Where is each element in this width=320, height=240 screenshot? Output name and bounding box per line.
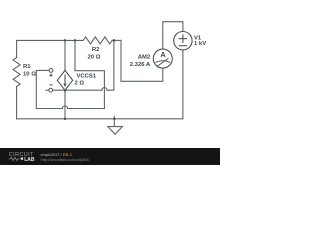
svg-text:1 kV: 1 kV — [194, 41, 206, 47]
svg-text:10 Ω: 10 Ω — [23, 72, 36, 78]
svg-text:2.326 A: 2.326 A — [130, 62, 151, 68]
svg-text:A: A — [160, 50, 166, 59]
svg-text:R2: R2 — [92, 47, 100, 53]
svg-text:LAB: LAB — [24, 157, 35, 163]
svg-text:R1: R1 — [23, 64, 31, 70]
svg-text:20 Ω: 20 Ω — [88, 54, 101, 60]
svg-text:VCCS1: VCCS1 — [77, 73, 97, 79]
svg-text:2 Ω: 2 Ω — [75, 80, 85, 86]
svg-text:AM2: AM2 — [138, 54, 151, 60]
svg-text:http://circuitlab.com/c/6j3k6: http://circuitlab.com/c/6j3k6 — [41, 157, 90, 162]
